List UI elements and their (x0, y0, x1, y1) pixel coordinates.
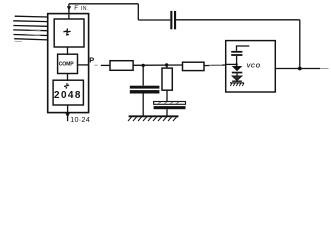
F in arrowhead (67, 6, 71, 10)
capacitor C4 (feedback coupling) (170, 11, 176, 29)
capacitor C3 (VCO coupling) (231, 51, 242, 56)
output arrowhead (65, 113, 69, 117)
wire R2 to C2 (166, 90, 168, 101)
resistor R2 (162, 68, 172, 90)
wire C3 to varactor node (236, 56, 238, 66)
wire C2 to ground (166, 109, 168, 116)
varactor diode D1 (232, 66, 243, 73)
divide symbol (64, 83, 69, 88)
svg-text:COMP: COMP (59, 62, 75, 68)
feedback wire cap to corner (138, 19, 170, 21)
svg-text:IN.: IN. (81, 6, 90, 12)
phase detector box (54, 19, 84, 47)
wire P to R1 (95, 64, 98, 66)
divide-by-2048 box (53, 80, 83, 105)
wire R3 to VCO box (204, 64, 226, 67)
capacitor C2 (154, 102, 186, 110)
resistor R1 (110, 61, 133, 71)
wire fade speckles (15, 30, 223, 66)
svg-text:10·24: 10·24 (70, 115, 90, 124)
svg-text:2048: 2048 (54, 90, 82, 101)
wire F in drop into chip (68, 4, 70, 19)
svg-text:VCO: VCO (247, 64, 261, 70)
comparator COMP box (58, 54, 78, 73)
wire diode to ground stack (236, 73, 238, 76)
wire COMP to P pin (78, 64, 89, 66)
phase detector phi symbol (63, 28, 70, 35)
feedback wire right vertical (299, 20, 301, 69)
wire node A down to C1 (142, 65, 144, 85)
VCO module box (226, 41, 276, 92)
VCO output wire (275, 68, 320, 70)
wire COMP to divider (67, 74, 69, 81)
junction varactor node (235, 63, 237, 65)
wire C1 to ground (142, 94, 144, 117)
ground rail (128, 116, 179, 121)
junction node A (142, 64, 145, 67)
svg-text:P: P (89, 56, 94, 65)
svg-text:F: F (74, 5, 78, 12)
programming input bus lines (13, 16, 48, 40)
resistor R3 (183, 62, 205, 70)
VCO internal ground (230, 83, 244, 86)
junction node B (165, 63, 168, 66)
VCO internal feed wire (237, 46, 250, 51)
wire divider to chip edge and output stub (67, 105, 69, 121)
wire phase detector to COMP (67, 47, 69, 54)
junction output node (298, 67, 302, 71)
wire node B down to R2 (166, 65, 168, 68)
feedback wire top horizontal (69, 3, 138, 5)
capacitor C1 (130, 86, 160, 94)
wire VCO input to varactor node (226, 63, 237, 65)
divider/PLL chip outer box U1 (48, 14, 89, 113)
feedback corner vertical (137, 4, 139, 20)
diode D2 (lower varactor) (232, 76, 242, 82)
feedback wire upper horizontal right (176, 19, 300, 21)
wire R1 to junctions to R3 (133, 64, 182, 66)
